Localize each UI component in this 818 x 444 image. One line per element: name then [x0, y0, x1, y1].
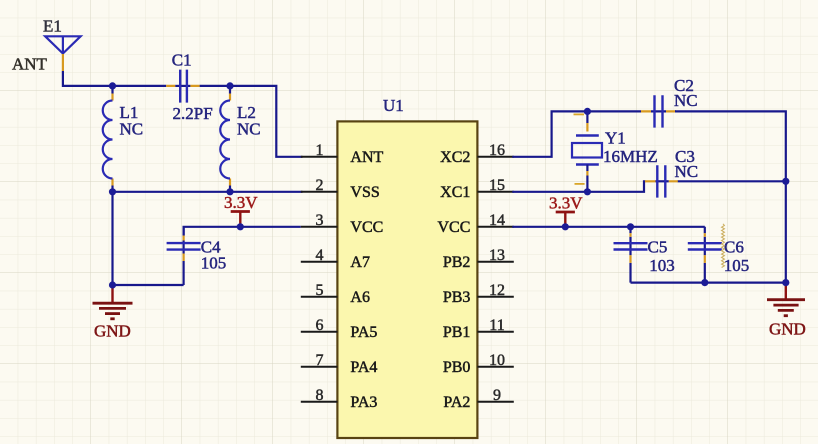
pin 12 (U1 right): [477, 296, 513, 298]
svg-text:3: 3: [316, 212, 324, 229]
svg-text:16: 16: [489, 142, 505, 159]
pin 3 (U1 left): [301, 226, 338, 228]
svg-text:PB3: PB3: [443, 289, 471, 306]
svg-text:U1: U1: [383, 96, 404, 115]
inductor L2: [220, 86, 260, 192]
wire pin16 to C2: [512, 111, 786, 286]
pins left (black): [301, 157, 338, 402]
svg-text:PA4: PA4: [350, 359, 377, 376]
svg-text:13: 13: [489, 247, 505, 264]
svg-text:3.3V: 3.3V: [224, 193, 258, 212]
svg-text:2: 2: [316, 177, 324, 194]
junction C1/L2: [226, 82, 233, 89]
no-connect tick Y1 bottom: [575, 183, 585, 185]
antenna E1: [45, 36, 80, 53]
svg-text:105: 105: [724, 256, 750, 275]
svg-text:C6: C6: [724, 237, 744, 256]
pin 5 (U1 left): [301, 296, 338, 298]
svg-text:PA5: PA5: [350, 324, 377, 341]
wire antenna to C1 and L2 to pin1: [63, 71, 303, 157]
svg-text:NC: NC: [237, 120, 261, 139]
wire VCC rail left: [184, 227, 301, 236]
IC U1: [337, 121, 477, 438]
wire C5 bottom rail: [631, 282, 786, 284]
pin 4 (U1 left): [301, 261, 338, 263]
svg-text:10: 10: [489, 352, 505, 369]
junction C4 rail/GND left: [109, 281, 116, 288]
antenna E1 pin stub: [62, 54, 64, 71]
pin 14 (U1 right): [477, 226, 513, 228]
svg-text:GND: GND: [769, 319, 806, 338]
junction C3/right bus: [782, 178, 789, 185]
capacitor C4: [167, 227, 227, 285]
junction VCC/C5: [627, 223, 634, 230]
svg-text:E1: E1: [43, 16, 62, 35]
wire C4 bottom to GND drop: [113, 284, 184, 286]
svg-text:NC: NC: [120, 120, 144, 139]
capacitor C6: [688, 227, 749, 283]
svg-text:GND: GND: [94, 321, 131, 340]
svg-text:1: 1: [316, 142, 324, 159]
svg-text:VCC: VCC: [350, 219, 383, 236]
pin 10 (U1 right): [477, 366, 513, 368]
svg-text:Y1: Y1: [605, 129, 626, 148]
pin 1 (U1 left): [301, 156, 338, 158]
inductor L1: [103, 86, 143, 192]
svg-text:NC: NC: [675, 162, 699, 181]
svg-text:PB0: PB0: [443, 359, 471, 376]
wire VSS rail: [113, 191, 303, 193]
power 3.3V right: [549, 194, 583, 227]
pins right (black): [477, 157, 513, 402]
junction gnd rail/right bus: [782, 279, 789, 286]
wire pin14 VCC rail right: [512, 226, 705, 228]
svg-text:9: 9: [493, 387, 501, 404]
svg-text:VSS: VSS: [350, 184, 379, 201]
pin 8 (U1 left): [301, 401, 338, 403]
pin 6 (U1 left): [301, 331, 338, 333]
svg-text:15: 15: [489, 177, 505, 194]
svg-text:11: 11: [489, 317, 504, 334]
pin 13 (U1 right): [477, 261, 513, 263]
svg-text:C1: C1: [172, 51, 192, 70]
svg-text:16MHZ: 16MHZ: [603, 147, 658, 166]
junction ANT/L1: [109, 82, 116, 89]
svg-text:PA2: PA2: [443, 394, 470, 411]
junction XC2/Y1 top: [584, 108, 591, 115]
pin 16 (U1 right): [477, 156, 513, 158]
svg-text:7: 7: [316, 352, 324, 369]
ground GND left: [93, 286, 133, 340]
pin 7 (U1 left): [301, 366, 338, 368]
junction XC1/Y1 bottom: [584, 188, 591, 195]
svg-text:PA3: PA3: [350, 394, 377, 411]
no-connect tick Y1 top: [574, 113, 585, 115]
pin numbers left: [316, 142, 324, 404]
svg-text:6: 6: [316, 317, 324, 334]
svg-text:ANT: ANT: [350, 149, 383, 166]
svg-text:NC: NC: [674, 91, 698, 110]
pin 2 (U1 left): [301, 191, 338, 193]
svg-text:PB1: PB1: [443, 324, 471, 341]
wire GND drop left: [111, 192, 113, 287]
pin names left: [350, 149, 383, 411]
svg-text:PB2: PB2: [443, 254, 471, 271]
svg-text:XC1: XC1: [440, 184, 470, 201]
svg-text:105: 105: [201, 253, 227, 272]
svg-text:4: 4: [316, 247, 324, 264]
junction VCC/3.3V right: [562, 223, 569, 230]
svg-text:C5: C5: [648, 237, 668, 256]
capacitor C2: [641, 76, 698, 127]
svg-text:14: 14: [489, 212, 505, 229]
junction VSS/L2: [226, 188, 233, 195]
ground GND right: [767, 283, 806, 338]
crystal Y1: [572, 111, 658, 191]
svg-text:103: 103: [649, 256, 675, 275]
power 3.3V left: [224, 193, 258, 227]
capacitor C1: [166, 51, 212, 124]
junction VSS/L1/GND: [109, 188, 116, 195]
svg-text:A6: A6: [350, 289, 370, 306]
capacitor C5: [614, 227, 675, 283]
svg-text:3.3V: 3.3V: [549, 194, 583, 213]
junction VCC/3.3V left: [237, 223, 244, 230]
svg-text:ANT: ANT: [12, 55, 48, 74]
svg-text:A7: A7: [350, 254, 370, 271]
junction C6/gnd rail: [701, 279, 708, 286]
pin names right: [437, 149, 470, 411]
svg-text:8: 8: [316, 387, 324, 404]
svg-text:XC2: XC2: [440, 149, 470, 166]
wire pin15 to C3: [512, 181, 786, 192]
pin 11 (U1 right): [477, 331, 513, 333]
pin 15 (U1 right): [477, 191, 513, 193]
capacitor C3: [645, 147, 698, 198]
svg-text:2.2PF: 2.2PF: [173, 104, 213, 123]
svg-text:VCC: VCC: [437, 219, 470, 236]
marker orange dashed (C6): [722, 224, 725, 268]
svg-text:5: 5: [316, 282, 324, 299]
svg-text:12: 12: [489, 282, 505, 299]
pin 9 (U1 right): [477, 401, 513, 403]
pin numbers right: [489, 142, 505, 404]
